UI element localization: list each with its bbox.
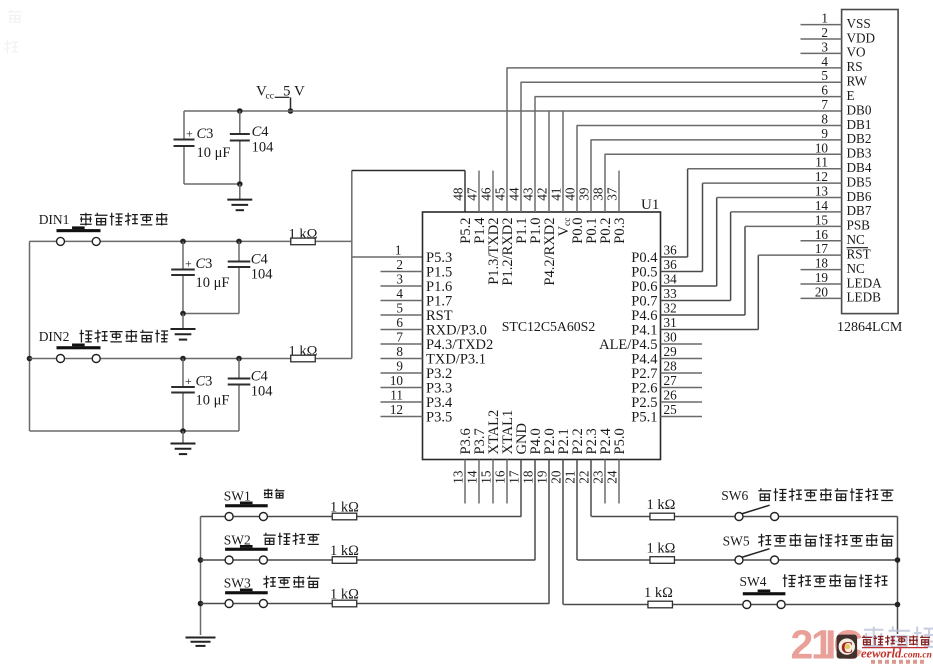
resistor 1k (SW3) — [330, 587, 359, 607]
svg-text:36: 36 — [664, 257, 678, 272]
svg-text:42: 42 — [535, 188, 550, 201]
svg-text:27: 27 — [664, 373, 678, 388]
label SW3 chinese — [263, 576, 319, 588]
wire/pin left pin 10 P3.3 — [381, 373, 453, 397]
wire/pin bottom pin 21 — [563, 428, 587, 560]
wire/pin top pin 43 — [521, 97, 545, 244]
svg-text:104: 104 — [252, 140, 275, 156]
svg-text:104: 104 — [251, 384, 273, 400]
wire/pin top pin 47 — [465, 171, 489, 244]
svg-text:43: 43 — [521, 187, 536, 201]
svg-text:4: 4 — [396, 286, 403, 301]
LCD module 12864LCM body — [837, 10, 903, 336]
ground (top pair) — [227, 184, 252, 210]
wire/pin right pin 28 P2.7 — [631, 359, 702, 383]
wire/pin LCD pin 10 DB3 — [605, 140, 872, 160]
wire/pin top pin 42 — [535, 111, 559, 286]
wire/pin top pin 40 — [563, 125, 587, 243]
wire/pin bottom pin 18 — [521, 428, 545, 560]
capacitor C4 104 (middle) — [228, 239, 274, 314]
wire/pin bottom pin 23 — [591, 428, 615, 504]
capacitor C4 104 (bottom) — [228, 356, 274, 431]
svg-text:44: 44 — [507, 187, 522, 201]
label SW2 chinese — [263, 533, 319, 545]
wire DIN2 row — [30, 358, 352, 360]
svg-text:18: 18 — [815, 256, 829, 271]
wire/pin bottom pin 17 — [507, 423, 531, 516]
resistor 1k (SW1) — [330, 500, 359, 520]
svg-text:2: 2 — [821, 25, 828, 40]
resistor 1k (DIN2) — [289, 344, 318, 362]
resistor 1k (SW2) — [330, 543, 359, 563]
svg-text:28: 28 — [664, 359, 678, 374]
svg-text:9: 9 — [821, 126, 828, 141]
svg-text:46: 46 — [479, 187, 494, 201]
wire/pin LCD pin 6 E — [535, 83, 855, 103]
svg-text:5 V: 5 V — [283, 84, 305, 100]
wire/pin top pin 46 — [479, 171, 503, 285]
svg-text:7: 7 — [396, 330, 403, 345]
svg-text:39: 39 — [577, 187, 592, 201]
svg-text:6: 6 — [396, 315, 403, 330]
resistor 1k (SW4) — [644, 585, 673, 608]
svg-text:+: + — [186, 127, 193, 141]
switch SW4 — [740, 574, 786, 609]
svg-text:RW: RW — [847, 74, 868, 89]
wire/pin bottom pin 14 — [465, 428, 489, 503]
wire/pin right pin 30 ALE/P4.5 — [599, 330, 702, 354]
node Vcc 5V label — [256, 84, 305, 102]
wire/pin bottom pin 19 — [535, 428, 559, 603]
svg-text:12: 12 — [815, 169, 828, 184]
wire/pin LCD pin 14 DB7 — [731, 198, 872, 218]
wire cap bottoms (top pair) — [184, 181, 243, 187]
svg-text:26: 26 — [664, 388, 678, 403]
svg-text:14: 14 — [815, 198, 829, 213]
switch SW2 — [224, 533, 268, 565]
switch DIN2 label — [39, 329, 168, 344]
svg-text:6: 6 — [821, 83, 828, 98]
decorative watermark — [791, 622, 863, 668]
switch SW1 — [224, 489, 268, 521]
svg-text:+: + — [185, 374, 192, 388]
wire/pin LCD pin 18 NC — [801, 256, 866, 276]
svg-text:C3: C3 — [197, 126, 214, 142]
wire/pin LCD pin 11 DB4 — [688, 155, 872, 175]
svg-text:33: 33 — [664, 286, 678, 301]
scan noise marks — [4, 9, 22, 54]
wire/pin bottom pin 15 — [479, 410, 503, 504]
svg-text:17: 17 — [815, 241, 829, 256]
svg-text:SW4: SW4 — [740, 574, 767, 589]
svg-text:C3: C3 — [196, 374, 213, 390]
svg-text:VSS: VSS — [847, 16, 871, 31]
svg-text:23: 23 — [591, 470, 606, 484]
svg-text:32: 32 — [664, 301, 677, 316]
wire/pin LCD pin 19 LEDA — [801, 270, 883, 290]
wire/pin right pin 36 P0.4 — [631, 169, 687, 266]
svg-text:5: 5 — [396, 301, 403, 316]
wire/pin right pin 25 P5.1 — [631, 402, 702, 426]
wire/pin top pin 48 — [451, 171, 475, 244]
svg-text:11: 11 — [815, 155, 828, 170]
svg-text:DIN2: DIN2 — [39, 329, 70, 344]
wire/pin LCD pin 15 PSB — [745, 212, 870, 232]
wire/pin left pin 1 P5.3 — [395, 243, 452, 267]
svg-text:SW6: SW6 — [721, 488, 748, 503]
wire/pin LCD pin 16 NC — [801, 227, 866, 247]
wire MCU pin1 — [352, 256, 423, 258]
label SW4 chinese — [783, 574, 888, 587]
svg-text:VO: VO — [847, 45, 866, 60]
svg-text:2: 2 — [396, 257, 403, 272]
wire DIN riser to pin48 route — [352, 171, 465, 359]
wire/pin LCD pin 5 RW — [521, 68, 868, 88]
svg-text:36: 36 — [664, 243, 678, 258]
wire/pin left pin 4 P1.7 — [381, 286, 453, 310]
ground SW rail — [186, 638, 216, 646]
svg-text:E: E — [847, 88, 855, 103]
svg-text:10 μF: 10 μF — [196, 275, 230, 291]
svg-text:U1: U1 — [641, 197, 659, 213]
op-amp U1 MCU STC12C5A60S2 body — [423, 197, 661, 460]
svg-text:40: 40 — [563, 187, 578, 201]
svg-text:37: 37 — [605, 187, 620, 201]
svg-text:41: 41 — [549, 188, 564, 201]
wire/pin LCD pin 2 VDD — [801, 25, 876, 45]
svg-text:20: 20 — [549, 470, 564, 484]
svg-text:5: 5 — [821, 68, 828, 83]
switch SW3 — [224, 576, 268, 608]
svg-text:C4: C4 — [251, 252, 269, 268]
svg-text:1: 1 — [821, 11, 828, 26]
wire/pin bottom pin 16 — [493, 410, 517, 504]
svg-text:10: 10 — [815, 140, 829, 155]
svg-text:P5.1: P5.1 — [631, 410, 657, 426]
svg-text:29: 29 — [664, 344, 678, 359]
switch SW1 row — [201, 516, 522, 518]
wire cap bottoms (middle pair) — [180, 311, 239, 317]
svg-text:15: 15 — [815, 212, 829, 227]
wire/pin right pin 29 P4.4 — [631, 344, 702, 368]
svg-text:DB7: DB7 — [847, 203, 872, 218]
wire SW left rail — [198, 517, 204, 636]
svg-text:38: 38 — [591, 187, 606, 201]
svg-text:8: 8 — [821, 111, 828, 126]
svg-text:2: 2 — [791, 622, 814, 668]
svg-text:4: 4 — [821, 54, 828, 69]
wire/pin bottom pin 13 — [451, 428, 475, 503]
svg-text:NC: NC — [847, 232, 866, 247]
wire/pin top pin 41 — [549, 111, 574, 236]
wire/pin right pin 26 P2.5 — [631, 388, 702, 412]
wire/pin LCD pin 13 DB6 — [717, 184, 872, 204]
svg-text:DB6: DB6 — [847, 189, 872, 204]
wire left rail DIN — [27, 241, 33, 431]
switch DIN2 — [57, 344, 101, 363]
wire/pin right pin 27 P2.6 — [631, 373, 702, 397]
wire SW5 row — [577, 559, 897, 561]
wire/pin right pin 33 P0.7 — [631, 212, 730, 310]
wire/pin left pin 12 P3.5 — [381, 402, 453, 426]
wire/pin bottom pin 20 — [549, 428, 573, 604]
capacitor C3 10uF (middle) — [171, 239, 229, 314]
wire/pin LCD pin 4 RS — [507, 54, 863, 74]
ground (bottom pair) — [171, 431, 196, 454]
svg-text:RS: RS — [847, 59, 863, 74]
svg-text:1 kΩ: 1 kΩ — [647, 497, 676, 513]
wire/pin top pin 45 — [493, 68, 517, 286]
svg-text:SW3: SW3 — [224, 576, 251, 591]
svg-text:22: 22 — [577, 471, 592, 484]
svg-text:104: 104 — [251, 267, 273, 283]
svg-text:DB2: DB2 — [847, 131, 872, 146]
wire/pin left pin 5 RST — [381, 301, 453, 325]
svg-text:30: 30 — [664, 330, 678, 345]
svg-text:16: 16 — [815, 227, 829, 242]
wire/pin LCD pin 3 VO — [801, 39, 866, 59]
wire/pin right pin 36 P0.5 — [631, 183, 702, 280]
svg-text:48: 48 — [451, 187, 466, 201]
switch SW6 — [721, 488, 778, 521]
svg-text:25: 25 — [664, 402, 678, 417]
capacitor C3 10uF (bottom) — [171, 356, 229, 431]
wire/pin left pin 11 P3.4 — [381, 388, 453, 412]
wire/pin left pin 9 P3.2 — [381, 359, 453, 383]
svg-text:11: 11 — [390, 388, 403, 403]
svg-text:DB0: DB0 — [847, 102, 872, 117]
svg-text:DB1: DB1 — [847, 117, 872, 132]
svg-text:P3.5: P3.5 — [426, 410, 452, 426]
wire/pin top pin 39 — [577, 140, 601, 244]
wire bottom rail (DIN pair) — [30, 428, 240, 434]
wire/pin LCD pin 8 DB1 — [577, 111, 872, 131]
svg-text:3: 3 — [821, 39, 828, 54]
svg-text:DB3: DB3 — [847, 146, 872, 161]
wire/pin LCD pin 9 DB2 — [591, 126, 872, 146]
label SW1 chinese — [264, 489, 285, 499]
svg-text:DB5: DB5 — [847, 174, 872, 189]
svg-text:19: 19 — [815, 270, 829, 285]
svg-text:16: 16 — [493, 470, 508, 484]
wire/pin top pin 37 — [605, 171, 629, 244]
wire/pin bottom pin 24 — [605, 428, 629, 503]
svg-text:NC: NC — [847, 261, 866, 276]
label SW6 chinese — [758, 488, 893, 501]
svg-text:10 μF: 10 μF — [197, 145, 231, 161]
svg-text:13: 13 — [451, 470, 466, 484]
switch SW3 row — [201, 603, 550, 605]
svg-text:45: 45 — [493, 187, 508, 201]
svg-text:+: + — [185, 257, 192, 271]
svg-text:47: 47 — [465, 187, 480, 201]
svg-text:SW1: SW1 — [224, 489, 251, 504]
svg-text:SW5: SW5 — [723, 534, 750, 549]
svg-text:12: 12 — [390, 402, 403, 417]
svg-text:STC12C5A60S2: STC12C5A60S2 — [502, 319, 596, 334]
svg-text:LEDA: LEDA — [847, 275, 883, 290]
svg-text:21: 21 — [563, 471, 578, 484]
svg-text:DIN1: DIN1 — [39, 212, 70, 227]
svg-text:PSB: PSB — [847, 218, 871, 233]
svg-text:RST: RST — [847, 246, 871, 261]
svg-text:24: 24 — [605, 470, 620, 484]
wire/pin LCD pin 17 RST — [758, 241, 870, 261]
wire SW6 row — [591, 516, 897, 518]
svg-text:3: 3 — [396, 272, 403, 287]
wire/pin LCD pin 12 DB5 — [703, 169, 872, 189]
svg-text:P0.3: P0.3 — [612, 218, 628, 244]
wire/pin bottom pin 22 — [577, 428, 601, 516]
svg-text:C4: C4 — [252, 124, 270, 140]
svg-text:9: 9 — [396, 359, 403, 374]
switch SW5 — [723, 534, 779, 565]
wire/pin top pin 38 — [591, 154, 615, 243]
svg-text:cc: cc — [266, 92, 274, 102]
svg-text:C4: C4 — [251, 369, 269, 385]
svg-text:C3: C3 — [196, 256, 213, 272]
label SW5 chinese — [758, 534, 893, 547]
svg-text:1: 1 — [395, 243, 402, 258]
wire/pin right pin 32 P4.6 — [631, 226, 745, 324]
ground (middle pair) — [171, 314, 196, 340]
svg-text:15: 15 — [479, 470, 494, 484]
capacitor C3 10uF (top) — [174, 111, 231, 184]
svg-text:10: 10 — [390, 373, 404, 388]
svg-text:13: 13 — [815, 184, 829, 199]
svg-text:SW2: SW2 — [224, 533, 251, 548]
svg-text:VDD: VDD — [847, 30, 876, 45]
resistor 1k (SW5) — [647, 541, 676, 564]
wire/pin right pin 31 P4.1 — [631, 255, 758, 338]
svg-text:18: 18 — [521, 470, 536, 484]
svg-text:14: 14 — [465, 470, 480, 484]
wire/pin left pin 8 TXD/P3.1 — [396, 344, 486, 368]
wire right rail — [895, 517, 901, 635]
svg-text:LEDB: LEDB — [847, 290, 882, 305]
capacitor C4 104 (top) — [230, 108, 274, 184]
switch DIN1 — [57, 226, 101, 245]
switch SW2 row — [201, 559, 536, 561]
svg-text:1 kΩ: 1 kΩ — [644, 585, 673, 601]
wire DIN1 row — [30, 240, 352, 242]
wire/pin left pin 6 RXD/P3.0 — [381, 315, 487, 339]
wire SW4 row — [563, 604, 897, 606]
wire/pin right pin 34 P0.6 — [631, 198, 716, 295]
svg-text:34: 34 — [664, 272, 678, 287]
wire/pin left pin 2 P1.5 — [381, 257, 453, 281]
wire/pin LCD pin 20 LEDB — [801, 284, 882, 304]
svg-text:12864LCM: 12864LCM — [837, 320, 903, 335]
wire Vcc tick — [288, 97, 294, 113]
svg-text:31: 31 — [664, 315, 677, 330]
svg-text:P5.0: P5.0 — [612, 428, 628, 454]
svg-text:DB4: DB4 — [847, 160, 872, 175]
wire/pin left pin 3 P1.6 — [381, 272, 453, 296]
svg-text:19: 19 — [535, 470, 550, 484]
wire/pin LCD pin 1 VSS — [801, 11, 871, 31]
wire Vcc rail to LCD DB0 pin7 — [184, 110, 842, 112]
resistor 1k (DIN1) — [289, 227, 318, 245]
svg-text:1 kΩ: 1 kΩ — [647, 541, 676, 557]
wire/pin top pin 44 — [507, 82, 531, 243]
resistor 1k (SW6) — [647, 497, 676, 520]
svg-text:10 μF: 10 μF — [196, 393, 230, 409]
svg-text:20: 20 — [815, 284, 829, 299]
wire/pin left pin 7 P4.3/TXD2 — [381, 330, 494, 354]
wire pin8 stub — [381, 358, 423, 360]
wire/pin LCD pin 7 DB0 — [821, 97, 871, 117]
svg-text:7: 7 — [821, 97, 828, 112]
svg-text:17: 17 — [507, 470, 522, 484]
svg-text:8: 8 — [396, 344, 403, 359]
switch DIN1 label — [39, 212, 168, 227]
